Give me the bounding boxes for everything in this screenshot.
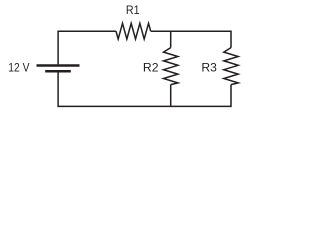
wire: R1 right lead across top to top-right corner, down to R3 top [151, 31, 231, 48]
svg-text:R3: R3 [201, 60, 217, 74]
wire: R2 bottom lead [170, 85, 172, 107]
svg-text:R2: R2 [143, 60, 159, 74]
wire: junction node at top rail down to R2 top [170, 31, 172, 47]
resistor R2 [164, 48, 178, 85]
resistor R3 [224, 48, 238, 85]
battery (12 V) short plate - [45, 70, 71, 73]
battery (12 V) long plate + [37, 64, 80, 67]
resistor R1 [116, 23, 151, 39]
svg-text:12 V: 12 V [8, 60, 30, 74]
wire: battery + terminal up and across top-left to R1 left lead [58, 31, 116, 64]
svg-text:R1: R1 [126, 3, 140, 17]
wire: battery - terminal down, bottom rail across, up to R3 bottom [58, 72, 231, 106]
